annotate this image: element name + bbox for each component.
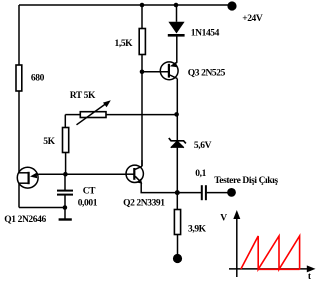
- junction dot output node: [175, 190, 180, 195]
- wire CT top lead: [64, 174, 66, 190]
- svg-text:Q3 2N525: Q3 2N525: [188, 68, 226, 78]
- svg-text:Q2 2N3391: Q2 2N3391: [123, 199, 165, 209]
- wire 5K bottom lead: [65, 153, 67, 175]
- wire Q1 B1 down: [18, 183, 20, 207]
- junction dot top rail at 1,5K column: [140, 3, 145, 8]
- axis arrowhead t: [307, 265, 316, 272]
- terminal bottom: [173, 254, 182, 263]
- svg-text:+24V: +24V: [242, 14, 263, 24]
- junction dot CT bottom: [63, 205, 68, 210]
- transistor Q2 2N3391: [123, 160, 165, 209]
- svg-text:RT 5K: RT 5K: [70, 91, 96, 101]
- diode 1N1454: [168, 22, 220, 39]
- wire diode to Q3: [176, 37, 178, 63]
- capacitor 0,1: [195, 169, 206, 200]
- wire diode column top: [176, 5, 178, 22]
- wire 5K top lead: [64, 115, 66, 128]
- wire Q3 collector to zener: [176, 79, 178, 140]
- svg-text:5,6V: 5,6V: [194, 141, 212, 151]
- wire Q2 emitter down and right: [141, 183, 177, 193]
- resistor R 680: [16, 65, 45, 91]
- wire top rail: [19, 4, 232, 6]
- terminal +24V: [227, 1, 263, 24]
- wire output node to capacitor: [177, 192, 201, 194]
- junction dot top rail at diode column: [174, 3, 179, 8]
- svg-text:CT: CT: [83, 186, 96, 196]
- sawtooth waveform: [241, 236, 300, 269]
- wire bottom-left horizontal: [19, 207, 65, 209]
- wire capacitor to output terminal: [207, 192, 228, 194]
- wire 1.5K column bottom: [141, 55, 143, 167]
- wire RT right lead: [106, 114, 177, 116]
- svg-text:Testere Dişi Çıkış: Testere Dişi Çıkış: [214, 176, 278, 186]
- svg-text:1N1454: 1N1454: [191, 28, 220, 38]
- svg-text:0,1: 0,1: [195, 169, 206, 179]
- svg-text:680: 680: [31, 73, 45, 83]
- wire 1.5K column top: [141, 5, 143, 29]
- wire zener to output node: [176, 148, 178, 210]
- svg-text:5K: 5K: [43, 137, 55, 147]
- ground: [59, 208, 72, 220]
- junction node Q1 emitter / 5K / CT: [63, 172, 68, 177]
- axis arrowhead V: [233, 210, 240, 219]
- junction dot RT right on zener column: [174, 112, 179, 117]
- wire left rail upper: [18, 5, 20, 65]
- svg-text:3,9K: 3,9K: [188, 224, 207, 234]
- svg-text:1,5K: 1,5K: [115, 39, 134, 49]
- wire Q3 base lead: [142, 71, 168, 73]
- wire RT left lead: [65, 114, 80, 116]
- wire CT bottom lead: [64, 195, 66, 207]
- waveform graph axes: [229, 216, 310, 277]
- svg-text:0,001: 0,001: [78, 199, 98, 209]
- transistor Q1 2N2646: [4, 167, 46, 225]
- svg-text:Q1 2N2646: Q1 2N2646: [4, 215, 46, 225]
- potentiometer RT 5K: [70, 91, 111, 125]
- terminal Testere Disi Cikis output: [214, 176, 278, 197]
- zener diode 5,6V: [169, 138, 212, 151]
- wire left rail lower: [18, 91, 20, 173]
- capacitor CT 0,001: [57, 186, 98, 208]
- transistor Q3 2N525: [160, 62, 225, 80]
- resistor 1,5K: [115, 29, 146, 55]
- wire Q1 emitter to Q2 base: [38, 173, 126, 175]
- resistor 3,9K: [174, 210, 206, 235]
- resistor 5K: [43, 128, 68, 153]
- svg-text:V: V: [220, 214, 227, 224]
- wire 3.9K to bottom terminal: [177, 235, 179, 255]
- junction dot Q3 base / 1,5K: [140, 70, 145, 75]
